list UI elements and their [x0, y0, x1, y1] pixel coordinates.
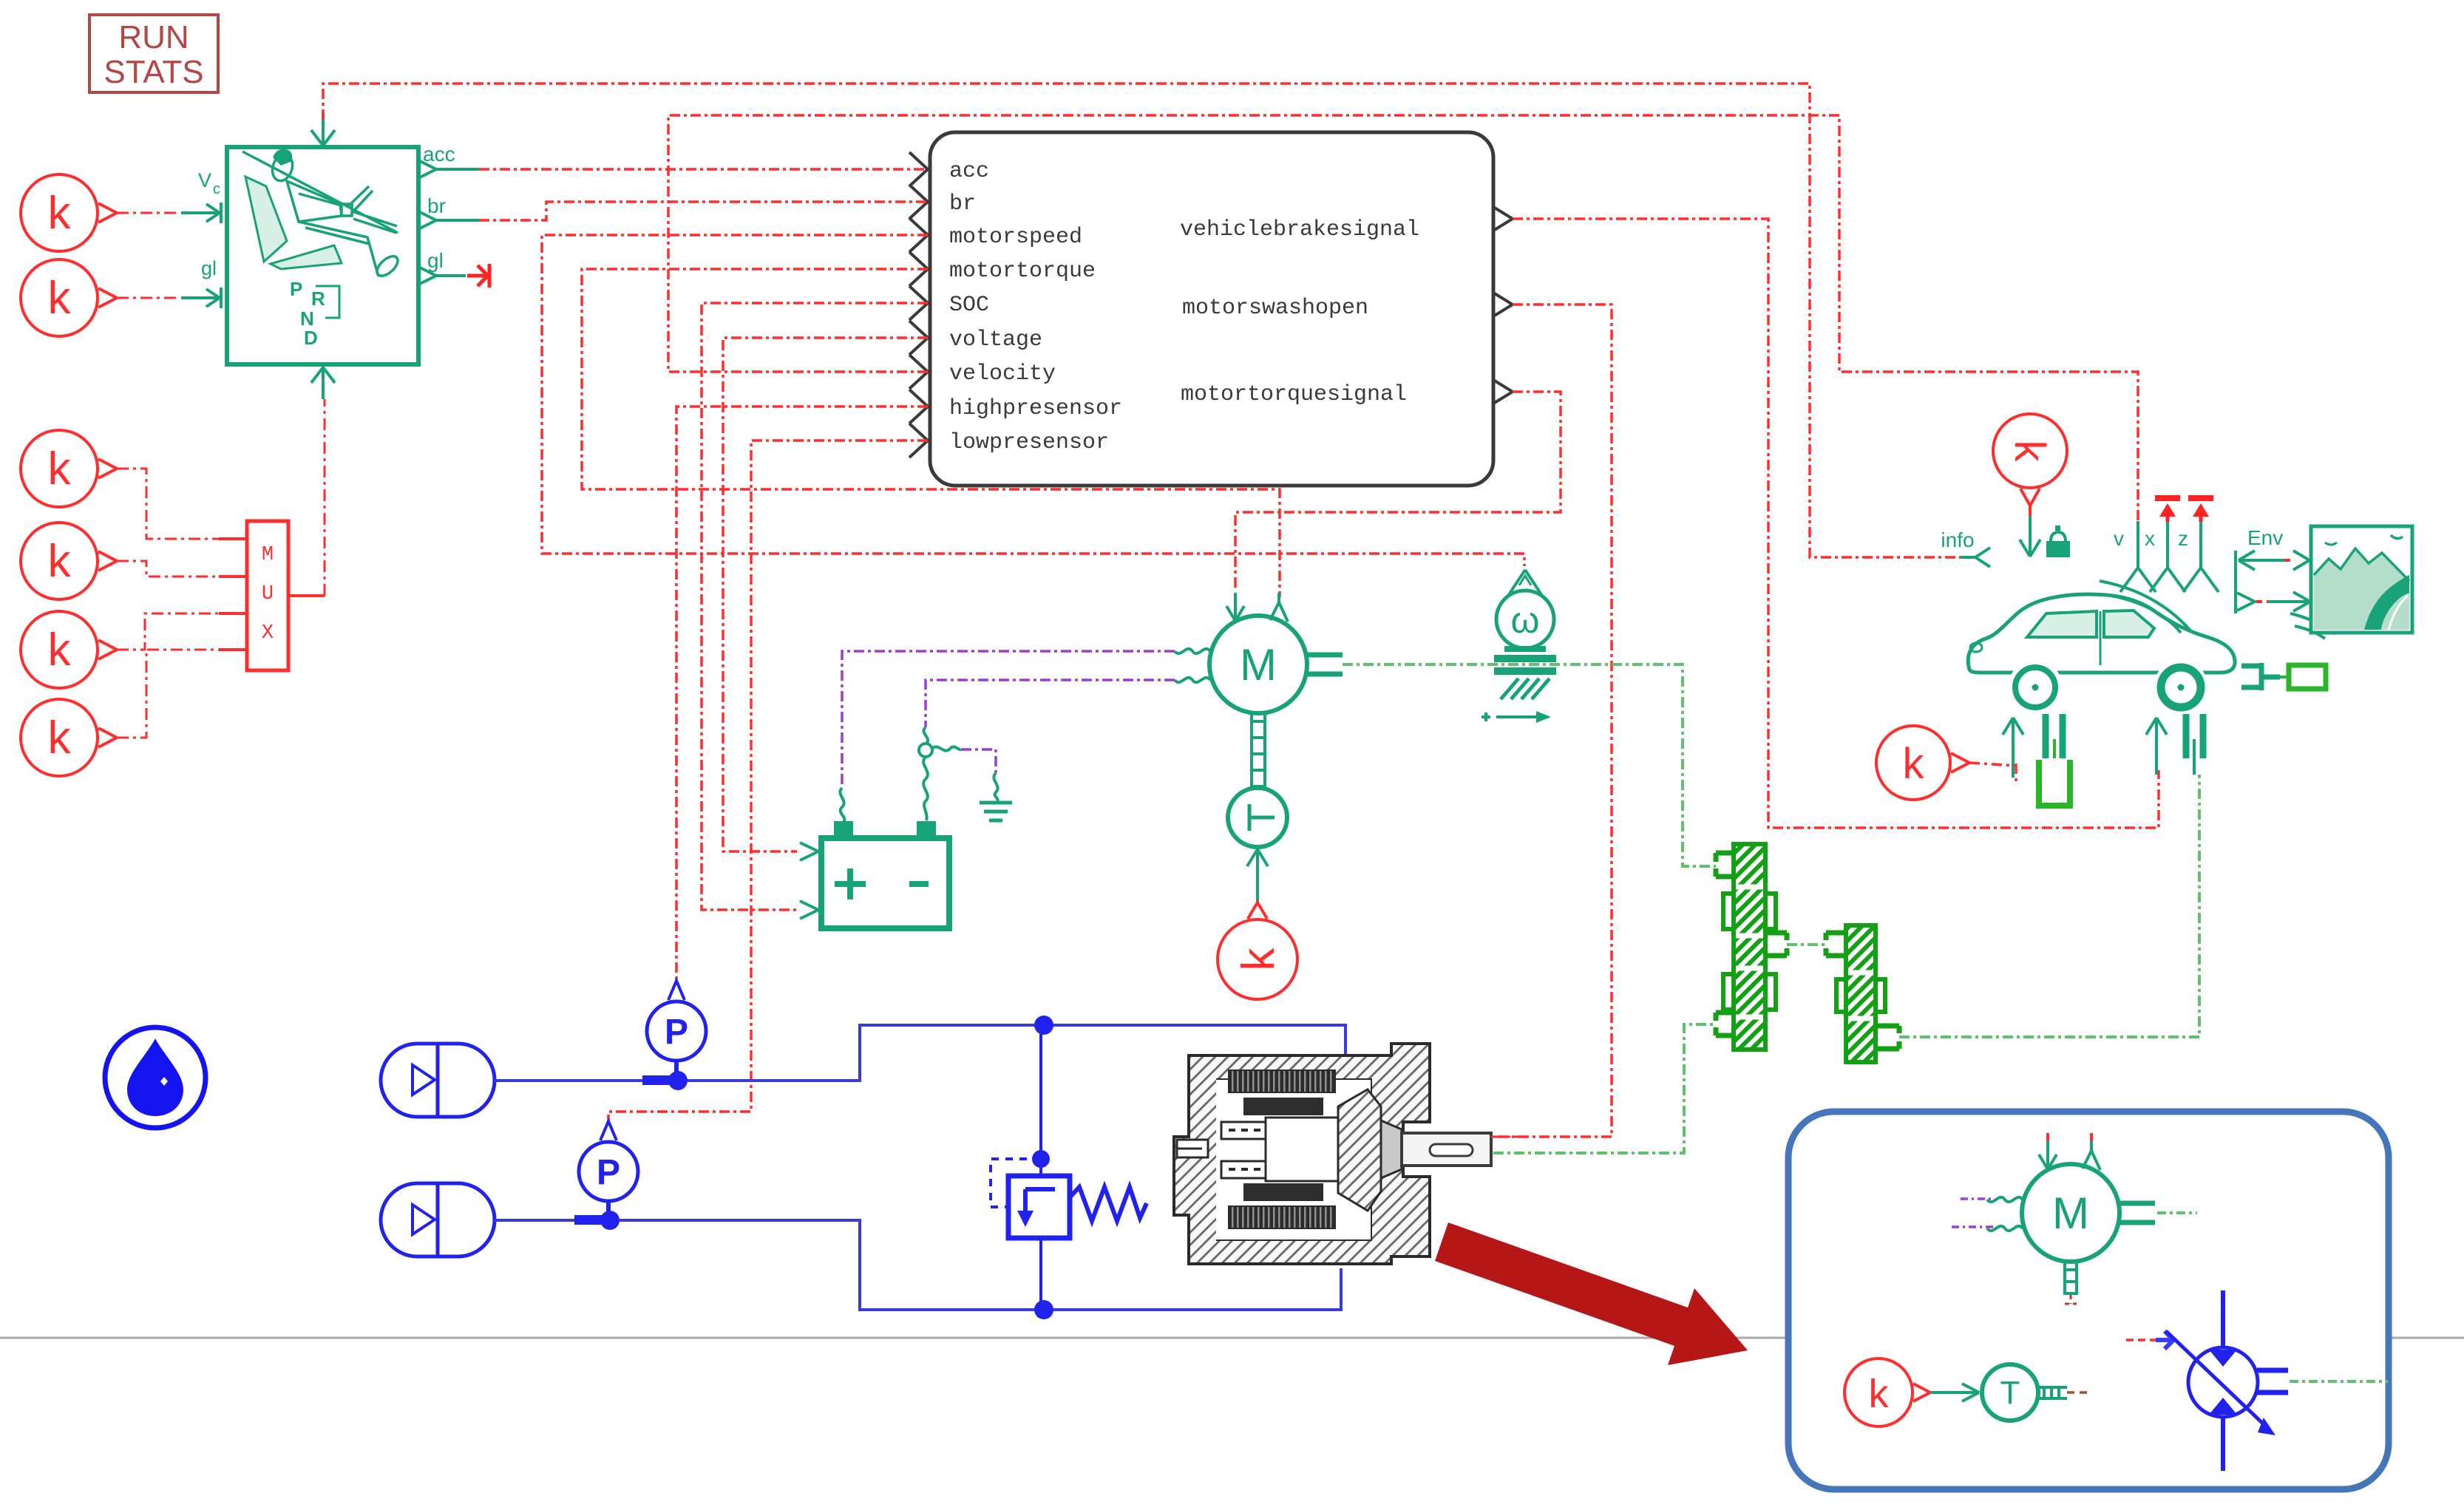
wavy lead battery plus: [840, 788, 844, 822]
image block chevron: [2293, 551, 2309, 570]
axial piston pump picture: [1174, 1044, 1430, 1264]
front suspension arrow: [2003, 718, 2023, 778]
arrow k9 to T1: [1247, 849, 1268, 906]
mux block: [247, 521, 288, 670]
svg-text:Env: Env: [2247, 526, 2283, 549]
zero plug on x: [2155, 495, 2180, 501]
svg-text:info: info: [1941, 528, 1974, 551]
controller output labels: [1180, 217, 1419, 407]
svg-text:P: P: [665, 1013, 688, 1052]
front suspension struts: [2046, 714, 2063, 758]
wire driver top info line: [323, 84, 1961, 557]
pressure sensor P2: [579, 1121, 638, 1220]
gear1 to gear2 link: [1787, 943, 1826, 946]
svg-text:highpresensor: highpresensor: [949, 396, 1122, 421]
pipe tick 2: [574, 1215, 603, 1225]
svg-text:br: br: [427, 194, 446, 217]
torque sensor T1: [1228, 788, 1287, 847]
constant source k2: [21, 259, 117, 336]
pipe junction 2: [600, 1211, 620, 1230]
svg-text:k: k: [48, 188, 72, 239]
svg-text:z: z: [2178, 527, 2188, 550]
wire battery voltage to controller voltage: [723, 338, 928, 851]
wire driver br to controller br: [479, 202, 928, 220]
electric motor M1: [1175, 593, 1343, 713]
svg-text:gl: gl: [427, 249, 444, 272]
arrow k7 into car: [2020, 516, 2040, 557]
wire k2 to driver gl: [117, 297, 179, 299]
inset pump green stub: [2290, 1380, 2388, 1383]
svg-text:P: P: [290, 278, 302, 300]
svg-text:motorswashopen: motorswashopen: [1182, 296, 1368, 321]
constant source k9: [1218, 902, 1297, 999]
arrow into image block: [2268, 592, 2310, 611]
svg-text:motorspeed: motorspeed: [949, 225, 1082, 250]
accumulator 1: [381, 1044, 495, 1117]
inset motor M2 shaft: [2065, 1262, 2077, 1295]
car headlight: [1970, 643, 1982, 652]
svg-text:P: P: [597, 1153, 620, 1192]
wire k1 to driver Vc: [117, 212, 179, 214]
wavy lead node to battery minus: [923, 757, 928, 820]
purple wire to ground: [961, 749, 996, 773]
front road input cup: [2039, 760, 2070, 806]
svg-text:T: T: [2000, 1375, 2020, 1411]
wire k5 to mux in3: [117, 613, 219, 650]
wavy lead to ground: [994, 773, 997, 801]
car body: [1968, 594, 2235, 673]
omega sensor clamp: [1494, 646, 1556, 675]
Env arrow in: [2239, 551, 2284, 570]
wire car v to velocity input: [668, 115, 2138, 522]
svg-text:acc: acc: [949, 159, 989, 184]
controller block body: [930, 132, 1493, 486]
svg-text:k: k: [48, 625, 72, 676]
car rear wheel: [2154, 660, 2208, 715]
inset T2 stub: [2067, 1391, 2089, 1394]
wire driver acc to controller acc: [479, 168, 928, 171]
inset torque sensor T2: [1982, 1364, 2038, 1421]
relief valve pilot junction: [1032, 1150, 1050, 1168]
rear suspension arrow: [2146, 718, 2167, 775]
controller output chevrons: [1493, 207, 1513, 404]
wire high pressure sensor to controller highpresensor: [676, 407, 928, 983]
constant source k1: [21, 174, 117, 251]
svg-text:c: c: [213, 181, 220, 197]
svg-text:D: D: [304, 327, 318, 349]
pump shaft to gear1 link: [1493, 1024, 1716, 1153]
inset hydraulic pump symbol: [2166, 1290, 2288, 1471]
svg-text:X: X: [262, 622, 274, 645]
svg-text:k: k: [1233, 948, 1284, 971]
svg-text:k: k: [48, 536, 72, 587]
svg-text:k: k: [1869, 1372, 1890, 1416]
wire battery SOC to controller SOC: [702, 303, 928, 910]
wire omega sensor to controller motorspeed: [542, 235, 1524, 566]
rear suspension struts: [2186, 714, 2203, 758]
wire k7 drop: [2029, 506, 2032, 517]
wind lines: [2100, 581, 2335, 639]
svg-text:acc: acc: [423, 143, 455, 166]
hydraulic fluid properties icon: [105, 1027, 206, 1128]
scenery image block: [2311, 526, 2412, 633]
drag mass element: [2280, 676, 2289, 679]
car rear window: [2104, 611, 2154, 637]
svg-text:k: k: [48, 713, 72, 763]
pipe junction 1: [668, 1071, 688, 1090]
constant source k8: [1876, 726, 1969, 800]
pressure sensor P1: [647, 981, 706, 1081]
svg-text:k: k: [48, 273, 72, 324]
svg-text:motortorquesignal: motortorquesignal: [1181, 382, 1407, 407]
omega sensor hatch: [1501, 679, 1550, 699]
padlock icon: [2046, 526, 2070, 557]
ground symbol: [980, 803, 1012, 820]
wire low pressure sensor to controller lowpresensor: [608, 441, 928, 1122]
mux input stubs: [219, 539, 247, 650]
relief valve drop line: [1039, 1025, 1042, 1310]
driver steering wheel: [347, 186, 397, 233]
svg-text:ω: ω: [1510, 599, 1539, 641]
svg-text:velocity: velocity: [949, 361, 1056, 387]
inset constant source k10: [1844, 1358, 1930, 1426]
rotary speed sensor omega: [1496, 570, 1554, 648]
constant source k7: [1993, 414, 2067, 506]
gear2 output to rear axle: [1899, 775, 2199, 1037]
driver block body: [227, 147, 418, 364]
wire motortorquesignal output to motor input: [1235, 392, 1561, 591]
inset arrow k10 to T2: [1930, 1384, 1979, 1401]
omega sensor displacement arrow: [1482, 713, 1539, 721]
run stats block: [89, 15, 218, 92]
svg-text:SOC: SOC: [949, 293, 989, 318]
big red annotation arrow: [1435, 1222, 1748, 1365]
driver PRND selector: [290, 278, 325, 349]
inset motor M2 green stub: [2157, 1211, 2197, 1214]
zero plug on z: [2188, 495, 2213, 501]
accumulator 2: [381, 1183, 495, 1256]
mux output stub: [288, 594, 325, 597]
pump output shaft: [1402, 1133, 1491, 1166]
svg-text:v: v: [2114, 527, 2124, 550]
purple wire motor phase B: [926, 680, 1175, 727]
wire vehiclebrakesignal output to rear suspension: [1513, 219, 2159, 828]
svg-text:STATS: STATS: [103, 54, 203, 90]
relief valve junction bottom: [1034, 1300, 1053, 1319]
wire k3 to mux in1: [117, 469, 219, 539]
relief valve body: [1008, 1176, 1070, 1238]
car door line: [2100, 611, 2102, 665]
svg-text:R: R: [311, 288, 325, 310]
gear reducer 2: [1826, 925, 1899, 1062]
pipe accumulator1 to loop: [495, 1025, 1345, 1081]
svg-text:gl: gl: [201, 257, 217, 279]
wire mux output to driver bottom: [324, 399, 326, 596]
svg-text:k: k: [2006, 441, 2054, 463]
battery: [821, 821, 949, 928]
wire k6 to mux in4: [117, 650, 219, 738]
wire motor torque port to controller motortorque: [582, 269, 1280, 597]
inset motor M2 red stubs: [2048, 1133, 2091, 1145]
constant source k6: [21, 699, 117, 776]
svg-text:x: x: [2145, 527, 2155, 550]
driver icon person: [242, 149, 401, 279]
gear reducer 1: [1716, 844, 1787, 1050]
svg-text:U: U: [262, 583, 274, 605]
Env port bar: [2234, 551, 2237, 613]
battery port voltage: [800, 843, 818, 860]
wire k8 to front road: [1969, 763, 2016, 782]
driver icon seat: [245, 177, 287, 262]
green shaft line motor to omega clamp and gear1: [1343, 664, 1716, 866]
car front window: [2027, 611, 2097, 637]
tow hitch bracket: [2241, 663, 2280, 690]
detail inset box: [1788, 1112, 2389, 1489]
gl plug terminator: [467, 264, 489, 288]
svg-text:vehiclebrakesignal: vehiclebrakesignal: [1180, 217, 1419, 242]
svg-text:br: br: [949, 191, 976, 217]
Env red link top: [2284, 559, 2292, 562]
constant source k4: [21, 523, 117, 599]
Env chevron out: [2237, 593, 2255, 611]
relief valve junction top: [1034, 1016, 1053, 1035]
constant source k3: [21, 430, 117, 507]
pipe tick 1: [642, 1075, 671, 1085]
svg-text:k: k: [48, 443, 72, 494]
constant source k5: [21, 611, 117, 688]
relief valve pilot line: [991, 1159, 1041, 1207]
car front wheel: [2008, 660, 2063, 715]
motor M1 shaft to torque sensor: [1252, 713, 1265, 788]
inset pump red stub: [2126, 1339, 2156, 1341]
relief valve spring: [1070, 1187, 1147, 1221]
svg-text:lowpresensor: lowpresensor: [949, 430, 1109, 455]
electrical node: [919, 744, 932, 757]
svg-text:motortorque: motortorque: [949, 259, 1096, 284]
controller input chevrons: [909, 152, 928, 458]
battery port SOC: [800, 901, 818, 919]
inset pump input arrow: [2156, 1331, 2173, 1349]
inset motor M2 purple stubs: [1952, 1199, 1994, 1227]
wavy lead node top: [923, 727, 928, 744]
controller input labels: [949, 159, 1122, 455]
driver top input arrow: [311, 112, 335, 146]
svg-text:voltage: voltage: [949, 327, 1042, 353]
svg-text:RUN: RUN: [118, 19, 189, 55]
pump swash signal stub: [1491, 1136, 1523, 1138]
pipe accumulator2 to loop: [495, 1220, 1341, 1310]
svg-text:k: k: [1903, 740, 1925, 788]
wire motorswashopen output to pump swash: [1493, 305, 1612, 1137]
Env red link bottom: [2256, 600, 2271, 603]
wavy lead node to ground branch: [932, 747, 961, 750]
purple wire motor phase A: [842, 651, 1175, 788]
svg-text:M: M: [262, 544, 274, 566]
wire k4 to mux in2: [117, 561, 219, 577]
svg-text:V: V: [198, 169, 211, 191]
driver bottom input arrow: [311, 367, 335, 399]
inset electric motor M2: [1987, 1141, 2155, 1262]
inset T2 shaft: [2038, 1387, 2067, 1398]
ground separator line: [0, 1337, 2464, 1339]
inset motor M2 shaft terminator: [2065, 1295, 2077, 1304]
